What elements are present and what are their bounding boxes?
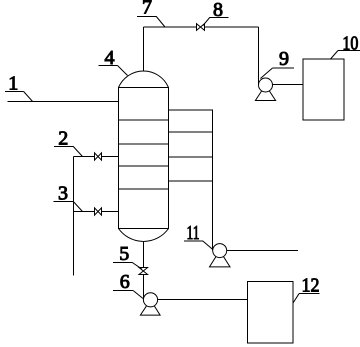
pipe pump11 outlet	[227, 250, 298, 252]
exchanger line e2	[169, 156, 213, 158]
svg-text:7: 7	[142, 0, 152, 19]
bottoms pipe upper	[142, 242, 144, 268]
svg-text:6: 6	[120, 271, 130, 293]
tank 10	[303, 59, 344, 120]
pump P6	[140, 293, 160, 315]
tray line t1	[119, 119, 169, 121]
pipe block to pump 11	[212, 181, 214, 251]
label 12	[293, 275, 320, 304]
column C body	[119, 88, 169, 229]
pipe pump9 to tank10	[273, 84, 304, 86]
svg-text:9: 9	[279, 48, 289, 70]
overhead riser pipe	[143, 27, 145, 72]
label 6	[113, 271, 143, 299]
pump P9	[255, 78, 275, 101]
overhead top pipe	[144, 26, 259, 28]
side exchanger block	[169, 110, 213, 181]
pump P11	[210, 244, 231, 267]
tray line t2	[119, 143, 169, 145]
valve V3	[95, 208, 102, 215]
tank 12	[247, 282, 293, 343]
vertical header pipe	[72, 157, 74, 276]
label 1	[5, 73, 33, 102]
pipe 2 horizontal	[73, 156, 118, 158]
pipe pump6 to tank12	[158, 299, 248, 301]
valve V8	[197, 24, 205, 31]
column bottom dome	[119, 229, 169, 242]
pipe 1 feed	[8, 101, 119, 103]
valve V2	[95, 153, 102, 160]
label 10	[331, 32, 360, 59]
tray line t4	[119, 188, 169, 190]
label 9	[260, 48, 293, 79]
label 4	[99, 47, 128, 76]
label 8	[203, 0, 229, 26]
valve V5	[139, 268, 148, 275]
exchanger line e1	[169, 131, 213, 133]
svg-text:5: 5	[119, 243, 129, 265]
label 7	[137, 0, 165, 27]
tray line t3	[119, 165, 169, 167]
label 3	[53, 183, 82, 212]
label 5	[113, 243, 142, 269]
downcomer pipe to pump 9	[258, 27, 260, 85]
label 11	[184, 222, 213, 250]
bottoms pipe lower	[142, 275, 144, 300]
column top dome	[119, 71, 169, 87]
pipe 3 horizontal	[73, 211, 118, 213]
label 2	[54, 128, 82, 157]
